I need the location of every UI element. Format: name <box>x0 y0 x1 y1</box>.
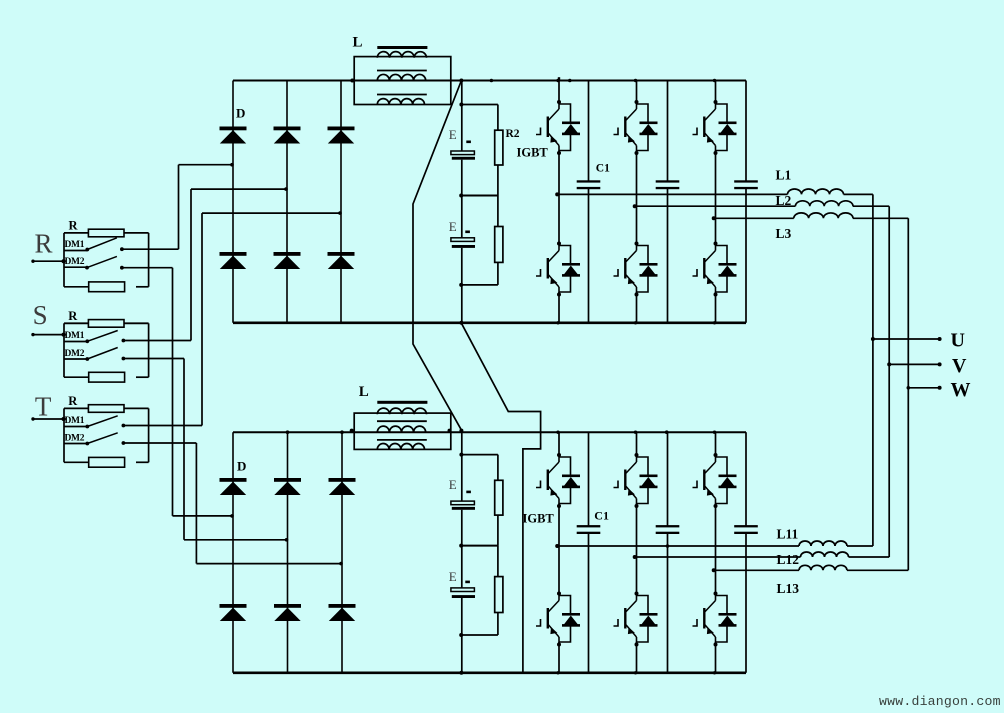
inductor L winding 1 (lower) <box>377 408 426 414</box>
node: upper E column on rail <box>459 321 463 325</box>
wire: upper R2 column upper <box>497 105 499 131</box>
inductor L11 winding <box>799 541 847 546</box>
switch DM1 (S) feed <box>64 341 88 343</box>
svg-text:L2: L2 <box>776 193 792 208</box>
wire: R DM1 riser <box>178 165 180 250</box>
switch DM1 (T) pivot <box>85 425 89 429</box>
wire: lower inverter leg2 top <box>636 432 638 455</box>
wire: lower C1 column 2 upper <box>667 432 669 525</box>
wire: S DM2 dropper <box>183 359 185 540</box>
wire: lower snubber drop <box>461 431 463 455</box>
capacitor E2 (upper) plate+ <box>451 238 475 242</box>
wire: upper E column mid <box>461 196 463 238</box>
inductor L winding 2 (lower) <box>377 426 425 432</box>
switch DM2 (R) feed <box>64 266 88 268</box>
capacitor C1 plate bottom (lower col2) <box>656 532 680 534</box>
svg-text:L12: L12 <box>777 552 800 567</box>
wire: upper inverter leg1 top <box>558 81 560 103</box>
inductor L bar2 (upper) <box>377 70 427 72</box>
diode D (row2 col3 lower rectifier) <box>329 604 356 608</box>
node: upper leg3 bottom rail junction <box>713 321 716 324</box>
wire: T block left edge <box>63 408 65 462</box>
wire: lower C1 column 1 upper <box>588 432 590 525</box>
wire: S block bottom right <box>136 376 149 378</box>
capacitor C1 plate top (upper col2) <box>656 180 680 182</box>
inductor L box (upper) <box>354 57 451 105</box>
wire: T block bottom right <box>136 461 149 463</box>
svg-text:IGBT: IGBT <box>517 146 549 160</box>
diode D (row2 col1 upper rectifier) <box>220 252 247 256</box>
wire: S block left edge <box>63 323 65 377</box>
resistor R2 upper (lower) <box>495 480 503 515</box>
wire: DC+ crossover diagonal <box>413 81 462 431</box>
wire: U terminal stub <box>873 338 940 340</box>
wire: T input lead <box>33 418 65 420</box>
capacitor E2 (lower) polarity <box>465 581 470 584</box>
wire: upper rectifier phase column 2 <box>286 81 288 323</box>
inductor L box (lower) <box>354 413 451 449</box>
wire: lower inverter leg1 top <box>558 432 560 455</box>
node: upper bottom junction <box>459 283 463 287</box>
wire: T block top edge <box>64 407 89 409</box>
node: upper rectifier tap 2 <box>284 187 288 191</box>
capacitor E1 (upper) plate- <box>452 157 475 160</box>
switch DM1 (R) contact <box>120 247 124 251</box>
switch DM1 (T) feed <box>64 426 88 428</box>
wire: upper E1 to mid <box>461 160 463 196</box>
inductor L12 winding <box>801 552 849 557</box>
capacitor C1 plate bottom (upper col1) <box>577 187 601 189</box>
capacitor E2 (upper) plate- <box>452 245 475 248</box>
wire: upper leg1 bottom <box>558 295 560 323</box>
capacitor C1 plate top (lower col2) <box>656 525 680 527</box>
switch DM2 (S) pivot <box>85 357 89 361</box>
wire: lower snubber top horizontal <box>462 454 498 456</box>
node: upper leg2 rail junction <box>634 79 637 82</box>
transistor IGBT (lower leg1 low) <box>536 592 580 647</box>
wire: T phase to lower tap3 <box>196 563 342 565</box>
diode D (row1 col2 lower rectifier) <box>274 478 301 482</box>
wire: lower rectifier phase column 3 <box>341 432 343 673</box>
switch DM2 (T) pivot <box>85 442 89 446</box>
wire: lower R2 column to mid <box>497 515 499 546</box>
transistor IGBT (lower leg2 low) <box>614 592 658 647</box>
node: lower mid junction <box>459 544 463 548</box>
svg-text:E: E <box>449 477 457 492</box>
svg-text:S: S <box>33 300 48 330</box>
wire: lower bottom horizontal <box>462 634 498 636</box>
wire: T block top edge right <box>124 407 149 409</box>
node: lower leg2 rail junction <box>634 431 637 434</box>
svg-text:C1: C1 <box>594 509 609 523</box>
node: lower snubber corner <box>459 453 463 457</box>
svg-text:DM1: DM1 <box>65 240 85 250</box>
resistor R top (T block) <box>88 405 124 413</box>
switch DM1 (S) pivot <box>85 339 89 343</box>
diode D (row1 col1 upper rectifier) <box>220 127 247 131</box>
wire: upper leg1 middle <box>558 153 560 244</box>
capacitor E1 (upper) plate+ <box>451 151 475 155</box>
wire: DM1 (R) output <box>122 248 179 250</box>
transistor IGBT (upper leg2 high) <box>614 100 658 155</box>
wire: upper R2 lower column upper <box>497 196 499 227</box>
node: lower leg2 bottom rail junction <box>634 671 637 674</box>
switch DM1 (R) feed <box>64 250 88 252</box>
svg-text:DM2: DM2 <box>65 349 85 359</box>
capacitor E2 (lower) plate+ <box>451 588 475 592</box>
wire: upper C1 column 2 upper <box>667 81 669 181</box>
capacitor E1 (lower) plate+ <box>451 501 475 505</box>
switch DM2 (S) feed <box>64 358 88 360</box>
wire: lower E column upper <box>461 455 463 502</box>
wire: top DC+ rail of lower converter <box>233 431 746 433</box>
wire: DM1 (T) output <box>123 425 202 427</box>
wire: upper inverter leg3 top <box>715 81 717 103</box>
node: upper leg3 output tap <box>712 216 716 220</box>
inductor L bar3 (upper) <box>377 94 427 96</box>
svg-text:E: E <box>449 127 457 142</box>
wire: upper leg3 bottom <box>715 295 717 323</box>
svg-text:DM1: DM1 <box>65 416 85 426</box>
inductor L3 winding <box>794 213 853 218</box>
wire: output bus1 vertical <box>872 194 874 546</box>
wire: upper phase1 tap line <box>559 193 788 195</box>
resistor R2 lower (upper) <box>495 227 503 263</box>
node: lower leg2 output tap <box>633 555 637 559</box>
wire: S phase to upper tap2 <box>191 188 287 190</box>
node: lower leg1 output tap <box>555 544 559 548</box>
wire: upper bottom horizontal <box>462 284 498 286</box>
wire: S block right edge <box>148 323 150 377</box>
node: lower C1 col2 tap junction <box>666 544 670 548</box>
inductor L winding 3 (lower) <box>377 444 424 450</box>
wire: T DM2 dropper <box>195 443 197 564</box>
switch DM2 (T) feed <box>64 443 88 445</box>
node: upper leg2 bottom rail junction <box>634 321 637 324</box>
wire: lower C1 column 1 lower <box>588 534 590 673</box>
switch DM2 (T) contact <box>122 441 126 445</box>
svg-text:W: W <box>951 379 971 401</box>
diode D (row2 col2 lower rectifier) <box>274 604 301 608</box>
node: W terminal <box>938 386 942 390</box>
node: upper leg3 rail junction <box>713 79 716 82</box>
diode D (row2 col1 lower rectifier) <box>220 604 247 608</box>
wire: upper R2 lower column tail <box>497 262 499 285</box>
diode D (row1 col1 lower rectifier) <box>220 478 247 482</box>
diode D (row1 col3 upper rectifier) <box>328 127 355 131</box>
svg-text:R: R <box>69 219 79 233</box>
resistor R bottom (S block) <box>89 372 125 382</box>
wire: R block bottom right <box>136 286 149 288</box>
wire: upper R2 column to mid <box>497 165 499 196</box>
switch DM1 (R) pivot <box>85 248 89 252</box>
resistor R bottom (T block) <box>89 457 125 467</box>
svg-text:R: R <box>68 309 78 323</box>
svg-text:C1: C1 <box>596 163 610 175</box>
switch DM2 (S) contact <box>122 357 126 361</box>
transistor IGBT (upper leg1 low) <box>536 242 580 297</box>
svg-text:www.diangon.com: www.diangon.com <box>879 694 1001 709</box>
wire: upper phase2 tap line <box>637 205 796 207</box>
transistor IGBT (upper leg3 low) <box>693 242 737 297</box>
wire: R block top edge right <box>124 232 149 234</box>
node: V stub left <box>887 362 891 366</box>
wire: lower C1 column 3 lower <box>745 534 747 673</box>
switch DM2 (R) blade <box>87 256 117 267</box>
wire: lower R2 column upper <box>497 455 499 481</box>
wire: upper leg3 middle <box>715 153 717 244</box>
svg-text:V: V <box>952 355 967 377</box>
wire: S input lead <box>33 334 65 336</box>
wire: lower rectifier phase column 2 <box>287 432 289 673</box>
node: V terminal <box>938 362 942 366</box>
diode D (row1 col2 upper rectifier) <box>274 127 301 131</box>
node: rail enters upper L box <box>350 79 354 83</box>
inductor L bar2 (lower) <box>377 420 427 422</box>
wire: S block top edge <box>64 322 89 324</box>
wire: L3 to bus3 <box>853 217 909 219</box>
svg-text:R: R <box>68 394 78 408</box>
node: upper leg2 output tap <box>633 204 637 208</box>
node: stray junction on upper rail 2 <box>490 79 494 83</box>
wire: upper inverter leg2 top <box>636 81 638 103</box>
diode D (row1 col3 lower rectifier) <box>329 478 356 482</box>
node: rail enters lower L box <box>350 429 354 433</box>
wire: R block right edge <box>148 233 150 287</box>
transistor IGBT (upper leg3 high) <box>693 100 737 155</box>
node: U terminal <box>938 337 942 341</box>
wire: upper leg2 middle <box>636 153 638 244</box>
svg-text:D: D <box>237 459 246 474</box>
node: W stub left <box>907 386 911 390</box>
wire: upper snubber top horizontal <box>462 104 498 106</box>
wire: T block right edge <box>148 408 150 462</box>
inductor L winding 3 (upper) <box>377 99 424 105</box>
wire: R block top edge <box>64 232 89 234</box>
transistor IGBT (lower leg3 high) <box>693 453 737 508</box>
wire: upper E column tail to rail <box>461 285 463 323</box>
node: lower leg1 bottom rail junction <box>556 671 559 674</box>
wire: lower R2 lower column tail <box>497 613 499 636</box>
wire: L2 to bus2 <box>853 205 889 207</box>
svg-text:L: L <box>359 384 369 400</box>
node: upper rectifier tap 1 <box>230 163 234 167</box>
node: stray junction on upper rail <box>568 79 572 83</box>
wire: lower rectifier phase column 1 <box>232 432 234 673</box>
wire: DM2 (R) output <box>122 267 173 269</box>
wire: upper C1 column 1 lower <box>588 189 590 323</box>
svg-text:DM1: DM1 <box>65 331 85 341</box>
inductor L1 winding <box>788 189 844 194</box>
wire: lower leg1 bottom <box>558 645 560 673</box>
wire: T block bottom left <box>64 461 89 463</box>
capacitor C1 plate bottom (lower col3) <box>734 532 758 534</box>
capacitor C1 plate bottom (upper col2) <box>656 187 680 189</box>
wire: upper phase3 tap line <box>716 217 794 219</box>
wire: lower E2 to bottom <box>461 598 463 635</box>
svg-text:L3: L3 <box>776 226 792 241</box>
wire: upper C1 column 3 lower <box>745 189 747 323</box>
inductor L core bar (lower) <box>377 401 427 404</box>
switch DM1 (T) contact <box>122 424 126 428</box>
node: lower bottom junction <box>459 633 463 637</box>
capacitor C1 plate top (lower col1) <box>577 525 601 527</box>
node: upper mid junction <box>459 194 463 198</box>
node: lower leg3 output tap <box>712 568 716 572</box>
capacitor C1 plate top (upper col3) <box>734 180 758 182</box>
switch DM2 (R) contact <box>120 266 124 270</box>
node: upper leg1 rail junction <box>556 79 559 82</box>
switch DM1 (R) blade <box>87 238 117 250</box>
capacitor E1 (lower) polarity <box>466 491 471 494</box>
capacitor C1 plate bottom (lower col1) <box>577 532 601 534</box>
svg-text:E: E <box>449 219 457 234</box>
svg-text:L13: L13 <box>777 581 800 596</box>
inductor L13 winding <box>799 565 847 570</box>
node: lower rectifier tap 1 <box>230 514 234 518</box>
svg-text:L1: L1 <box>776 168 792 183</box>
inductor L winding 2 (upper) <box>377 74 425 80</box>
capacitor E2 (upper) polarity <box>465 231 470 234</box>
node: lower leg3 bottom rail junction <box>713 671 716 674</box>
wire: lower R2 lower column upper <box>497 546 499 577</box>
inductor L2 winding <box>795 201 853 206</box>
node: lower rectifier col3 rail junction <box>340 430 344 434</box>
resistor R2 lower (lower) <box>495 577 503 613</box>
svg-text:L: L <box>353 35 363 51</box>
wire: lower C1 column 3 upper <box>745 432 747 525</box>
node: lower rectifier tap 3 <box>339 562 343 566</box>
wire: L12 to bus2 <box>849 556 890 558</box>
switch DM1 (T) blade <box>87 416 117 427</box>
node: tick above rail at leg1 <box>558 77 560 80</box>
inductor L winding 1 (upper) <box>377 52 426 58</box>
wire: lower E column tail to rail <box>461 635 463 673</box>
wire: DC- crossover diagonal <box>461 323 540 673</box>
wire: bottom DC- rail of lower converter <box>233 671 746 674</box>
node: rail exits lower L box <box>448 429 452 433</box>
node: upper leg1 output tap <box>555 192 559 196</box>
svg-text:DM2: DM2 <box>65 257 85 267</box>
wire: upper C1 column 3 upper <box>745 81 747 181</box>
wire: upper leg2 bottom <box>636 295 638 323</box>
node: upper snubber corner <box>459 103 463 107</box>
switch DM2 (T) blade <box>87 433 117 444</box>
wire: L13 to bus3 <box>847 569 908 571</box>
svg-text:T: T <box>35 392 52 422</box>
switch DM2 (R) pivot <box>85 266 89 270</box>
wire: lower C1 column 2 lower <box>667 534 669 673</box>
node: lower leg1 rail junction <box>556 431 559 434</box>
wire: upper E2 to bottom <box>461 248 463 285</box>
svg-text:R2: R2 <box>506 128 520 140</box>
resistor R bottom (R block) <box>89 282 125 292</box>
wire: S block bottom left <box>64 376 89 378</box>
switch DM1 (S) contact <box>122 339 126 343</box>
wire: upper rectifier phase column 1 <box>232 81 234 323</box>
capacitor C1 plate top (lower col3) <box>734 525 758 527</box>
wire: upper C1 column 1 upper <box>588 81 590 181</box>
wire: upper snubber drop <box>461 81 463 105</box>
svg-text:L11: L11 <box>777 527 799 542</box>
capacitor C1 plate top (upper col1) <box>577 180 601 182</box>
capacitor E1 (lower) plate- <box>452 507 475 510</box>
transistor IGBT (lower leg1 high) <box>536 453 580 508</box>
wire: R block left edge <box>63 233 65 287</box>
wire: output bus3 vertical <box>907 218 909 570</box>
svg-text:DM2: DM2 <box>65 433 85 443</box>
wire: bottom DC- rail of upper converter <box>233 321 746 324</box>
wire: L11 to bus1 <box>847 545 873 547</box>
wire: upper E column upper <box>461 105 463 152</box>
wire: L1 to bus1 <box>844 193 873 195</box>
wire: R phase to lower tap1 <box>173 515 234 517</box>
node: upper snubber top on rail <box>459 79 463 83</box>
switch DM1 (S) blade <box>87 331 117 342</box>
inductor L core bar (upper) <box>377 46 427 49</box>
node: U stub left <box>871 337 875 341</box>
diode D (row2 col3 upper rectifier) <box>328 252 355 256</box>
resistor R top (S block) <box>88 320 124 328</box>
wire: W terminal stub <box>908 387 939 389</box>
diode D (row2 col2 upper rectifier) <box>274 252 301 256</box>
transistor IGBT (upper leg2 low) <box>614 242 658 297</box>
capacitor C1 plate bottom (upper col3) <box>734 187 758 189</box>
wire: S DM1 riser <box>190 189 192 340</box>
svg-text:IGBT: IGBT <box>523 512 555 526</box>
svg-text:U: U <box>951 330 965 352</box>
wire: lower phase2 tap line <box>637 556 801 558</box>
wire: top DC+ rail of upper converter <box>233 80 746 82</box>
wire: lower leg2 middle <box>636 506 638 594</box>
wire: V terminal stub <box>889 363 939 365</box>
wire: lower E column mid <box>461 546 463 588</box>
wire: R block bottom left <box>64 286 89 288</box>
capacitor E1 (upper) polarity <box>466 141 471 144</box>
wire: lower phase3 tap line <box>716 569 800 571</box>
resistor R2 upper (upper) <box>495 130 503 165</box>
node: upper leg1 bottom rail junction <box>556 321 559 324</box>
wire: T phase to upper tap3 <box>202 212 341 214</box>
wire: lower leg3 bottom <box>715 645 717 673</box>
transistor IGBT (lower leg3 low) <box>693 592 737 647</box>
wire: DM1 (S) output <box>123 340 191 342</box>
wire: lower E1 to mid <box>461 510 463 546</box>
wire: T DM1 riser <box>201 213 203 425</box>
wire: DM2 (T) output <box>123 442 196 444</box>
transistor IGBT (upper leg1 high) <box>536 100 580 155</box>
svg-text:R: R <box>35 229 53 259</box>
transistor IGBT (lower leg2 high) <box>614 453 658 508</box>
wire: lower mid horizontal <box>462 545 498 547</box>
wire: lower leg2 bottom <box>636 645 638 673</box>
wire: upper rectifier phase column 3 <box>340 81 342 323</box>
wire: lower inverter leg3 top <box>715 432 717 455</box>
wire: R DM2 dropper <box>172 268 174 516</box>
wire: R phase to upper tap1 <box>179 164 234 166</box>
inductor L bar3 (lower) <box>377 439 427 441</box>
wire: R input lead <box>33 260 65 262</box>
node: lower E column on rail <box>459 671 463 675</box>
node: lower rectifier col2 rail junction <box>286 430 290 434</box>
node: lower leg3 rail junction <box>713 431 716 434</box>
wire: DM2 (S) output <box>123 358 184 360</box>
svg-text:D: D <box>236 106 245 121</box>
wire: lower leg3 middle <box>715 506 717 594</box>
wire: lower phase1 tap line <box>559 545 799 547</box>
wire: lower leg1 middle <box>558 506 560 594</box>
svg-text:E: E <box>449 569 457 584</box>
